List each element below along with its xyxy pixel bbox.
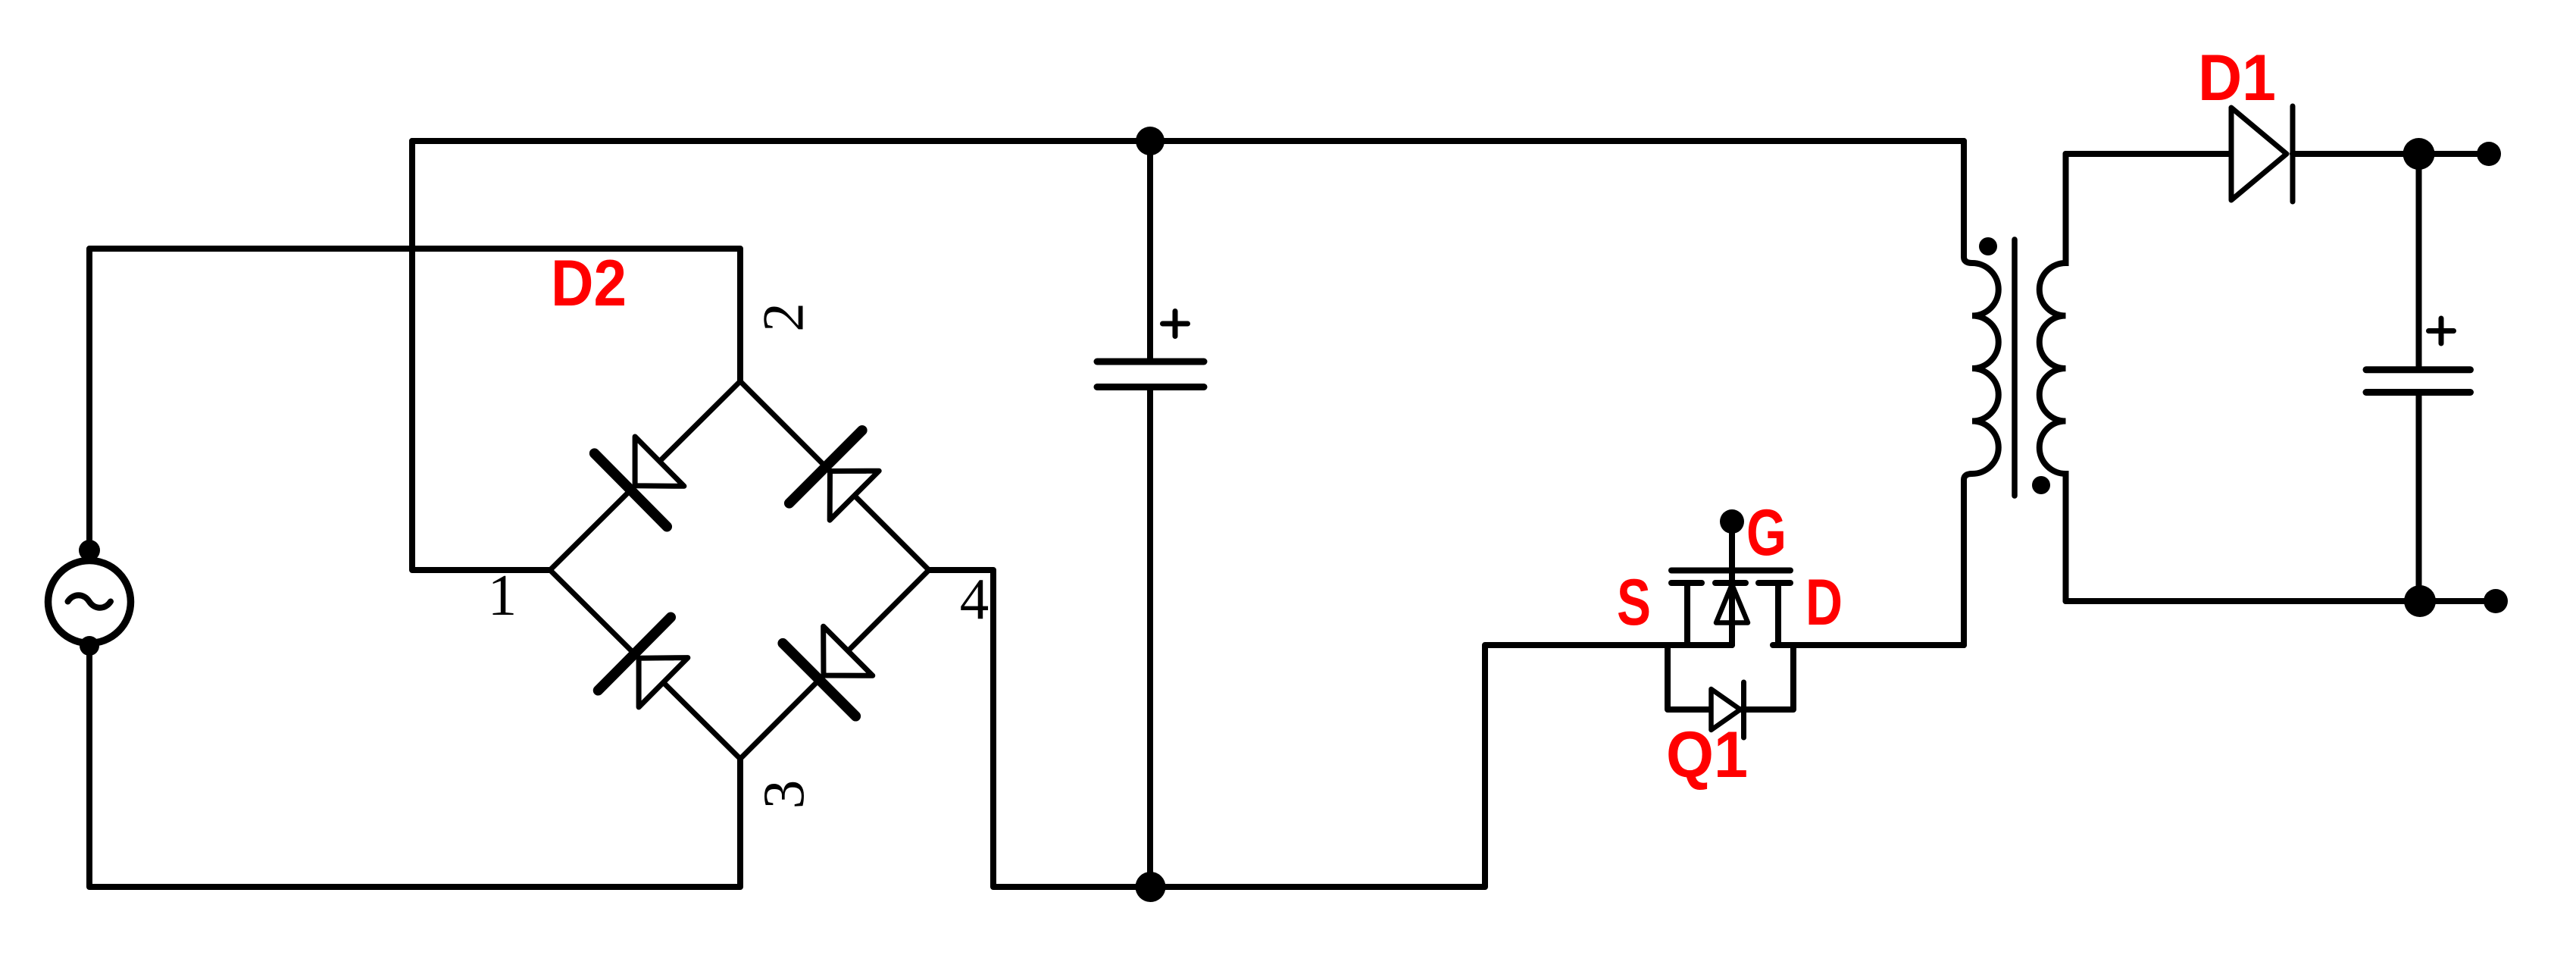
svg-text:2: 2 <box>751 302 816 332</box>
MOSFET Q1 body arrow <box>1716 584 1748 623</box>
capacitor C2 bottom lead <box>2416 395 2422 601</box>
transformer T1 secondary winding <box>2040 154 2066 601</box>
capacitor C2 plus sign <box>2429 318 2454 343</box>
wire: AC bottom return to bridge node 3 <box>89 646 740 887</box>
junction dot top bus / C1 top <box>1136 127 1165 155</box>
MOSFET Q1 channel segment middle <box>1715 580 1746 586</box>
output terminal dot minus <box>2484 589 2508 613</box>
bridge D2 edge node1-node2 <box>550 381 740 570</box>
capacitor C1 bottom plate <box>1097 384 1204 390</box>
bridge diode lower-left (cathode toward node 1) <box>639 658 688 707</box>
svg-text:D: D <box>1805 566 1843 639</box>
MOSFET Q1 gate/body vertical lead <box>1729 522 1735 645</box>
svg-text:S: S <box>1617 566 1651 639</box>
MOSFET Q1 source stub <box>1684 583 1690 645</box>
diode D1 cathode bar <box>2290 106 2296 202</box>
capacitor C2 top plate <box>2366 366 2471 373</box>
svg-text:3: 3 <box>751 780 816 810</box>
bridge diode lower-right (cathode toward node 3) <box>824 626 873 675</box>
bridge diode upper-right (cathode toward node 2) <box>830 471 879 520</box>
capacitor C1 bottom lead <box>1147 390 1153 887</box>
MOSFET Q1 gate bar <box>1671 568 1790 574</box>
capacitor C2 top lead <box>2416 154 2422 367</box>
MOSFET Q1 channel segment drain-side <box>1758 580 1790 586</box>
capacitor C1 top plate <box>1097 359 1204 365</box>
capacitor C1 plus sign <box>1163 312 1188 337</box>
MOSFET Q1 drain stub <box>1775 583 1781 645</box>
AC source terminal dot bottom <box>80 636 99 656</box>
wire: bridge node 4 to DC-minus rail <box>929 570 1732 887</box>
transformer T1 primary phase dot <box>1979 237 1997 255</box>
output terminal dot plus <box>2477 142 2501 166</box>
junction dot output minus / C2 bottom <box>2404 585 2436 617</box>
AC source sine symbol <box>68 595 111 608</box>
junction dot DC-minus rail / C1 bottom <box>1136 872 1166 902</box>
svg-text:D1: D1 <box>2198 42 2276 114</box>
svg-text:Q1: Q1 <box>1666 719 1748 791</box>
MOSFET Q1 body-diode cathode bar <box>1741 682 1746 738</box>
wire: secondary top to diode D1 anode <box>2066 151 2232 157</box>
svg-text:D2: D2 <box>551 247 627 320</box>
MOSFET Q1 body-diode triangle <box>1712 689 1741 730</box>
diode D1 triangle <box>2231 108 2287 200</box>
AC source V1 circle <box>48 561 131 644</box>
svg-text:1: 1 <box>488 562 517 628</box>
capacitor C2 bottom plate <box>2366 389 2471 396</box>
svg-text:4: 4 <box>960 566 989 631</box>
MOSFET Q1 gate terminal dot <box>1720 509 1744 534</box>
transformer T1 secondary phase dot <box>2032 476 2050 494</box>
wire: AC top to bridge node 2 <box>89 249 740 550</box>
MOSFET Q1 body-diode loop <box>1668 645 1793 710</box>
bridge D2 edge node3-node4 <box>740 570 929 759</box>
junction dot output plus / C2 top <box>2403 138 2435 170</box>
wire: left riser from top bus down to bridge node 1 <box>412 141 550 570</box>
svg-text:G: G <box>1746 497 1787 569</box>
capacitor C1 top lead <box>1147 141 1153 359</box>
wire: drain to transformer primary bottom <box>1773 642 1964 648</box>
MOSFET Q1 channel segment source-side <box>1671 580 1702 586</box>
transformer T1 core <box>2012 240 2018 496</box>
transformer T1 primary winding <box>1964 141 1999 645</box>
wire: secondary bottom to output minus terminal <box>2066 474 2496 601</box>
bridge D2 edge node1-node3 <box>550 570 740 759</box>
AC source terminal dot top <box>79 540 100 561</box>
bridge diode upper-left (cathode toward node 1) <box>635 437 684 486</box>
bridge D2 edge node2-node4 <box>740 381 929 570</box>
wire: D1 cathode to output plus terminal <box>2293 151 2489 157</box>
wire: top bus from node1 riser to transformer primary <box>412 138 1964 144</box>
